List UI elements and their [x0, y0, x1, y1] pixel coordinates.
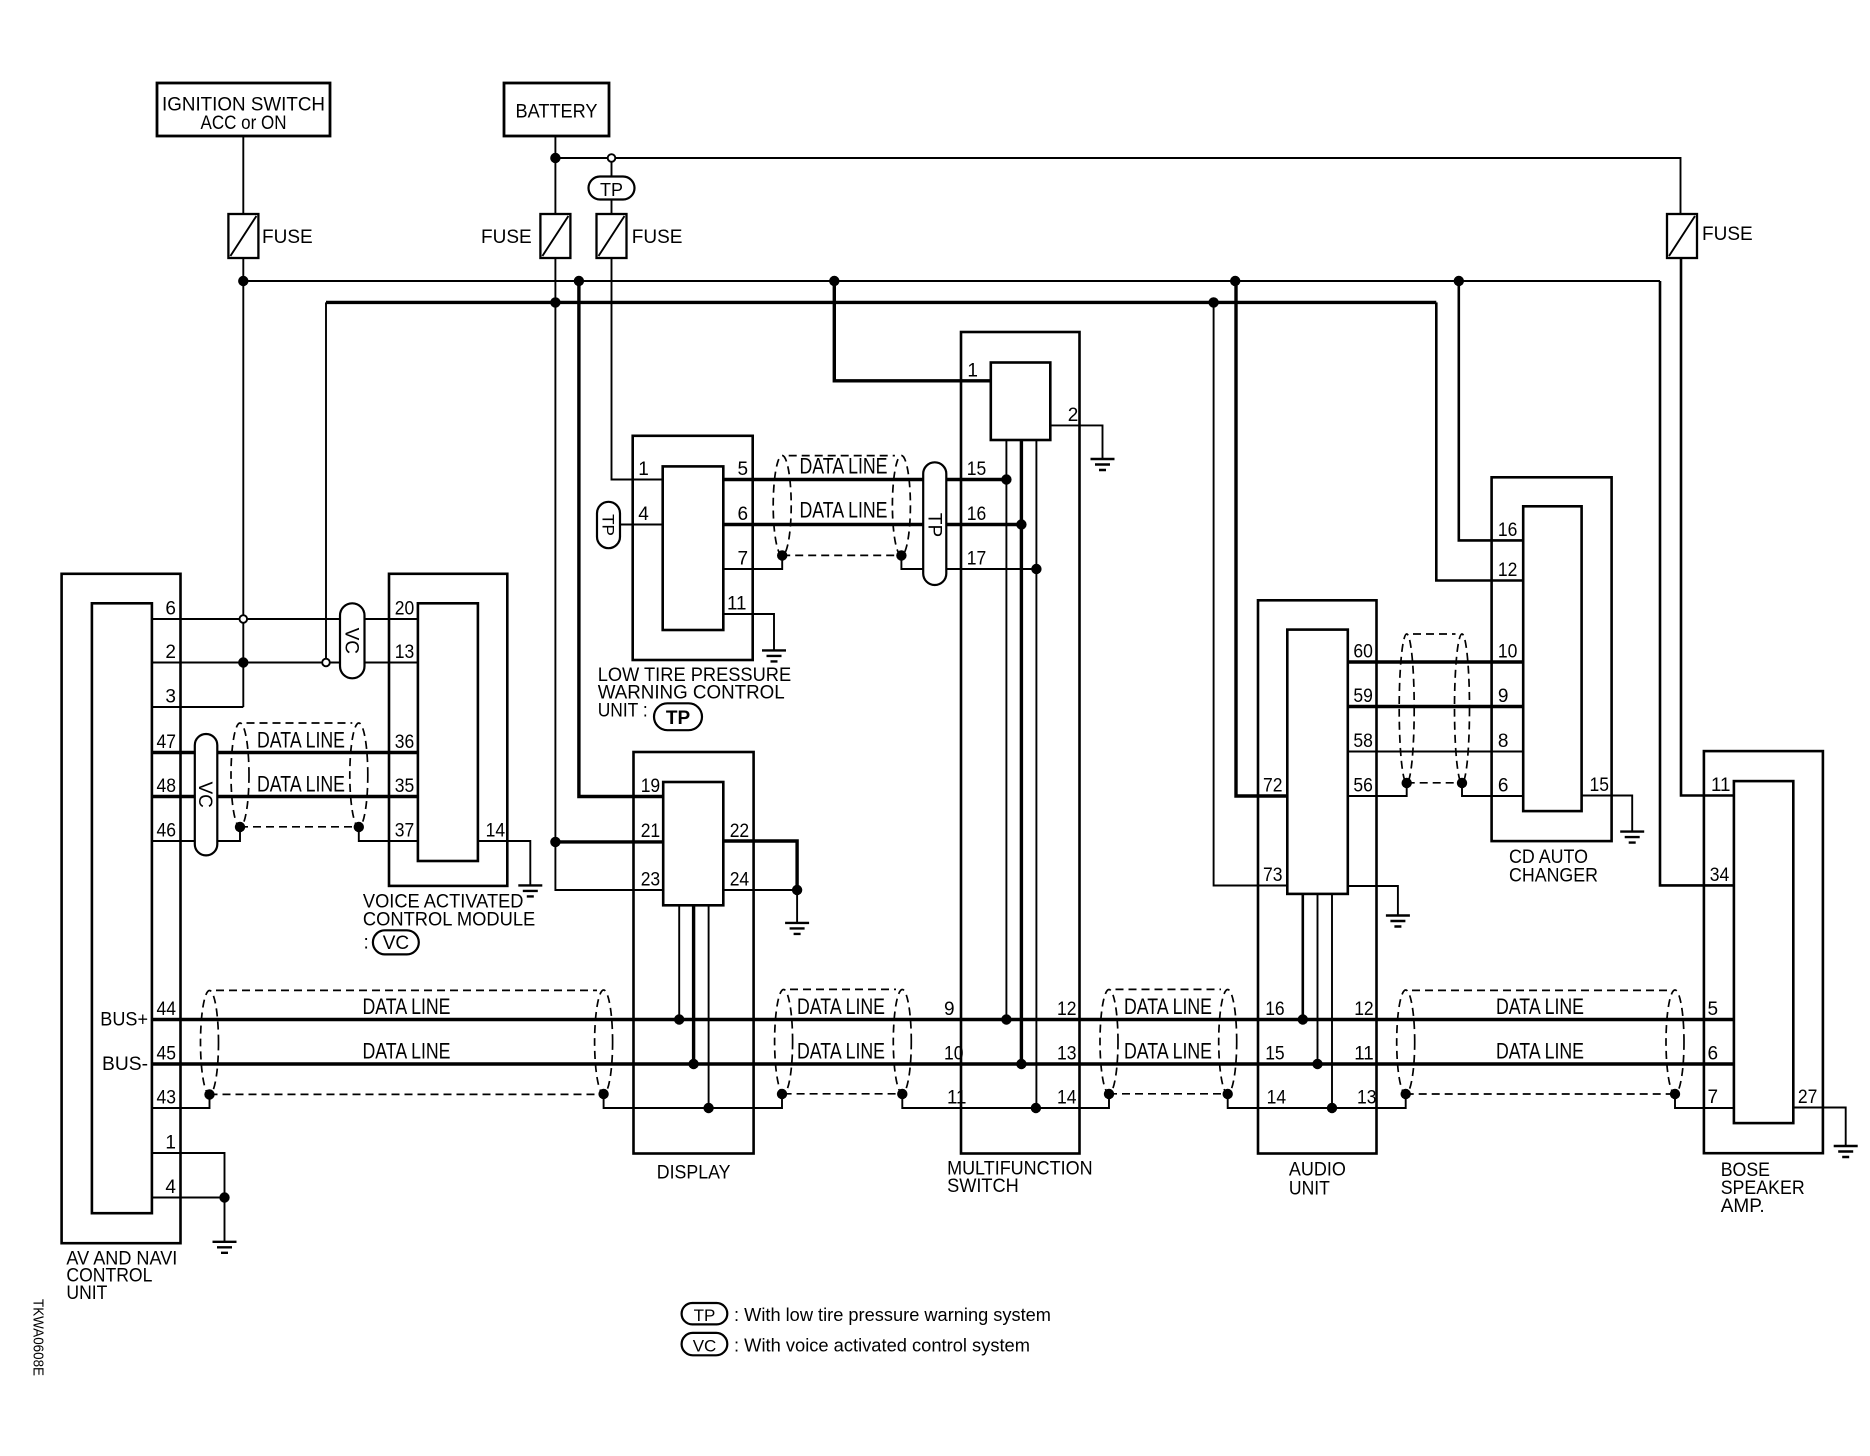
svg-text:60: 60	[1353, 642, 1373, 663]
svg-text:14: 14	[486, 821, 506, 842]
svg-text:UNIT: UNIT	[66, 1283, 107, 1304]
svg-text:ACC or ON: ACC or ON	[201, 113, 287, 134]
svg-text:AMP.: AMP.	[1721, 1196, 1765, 1217]
svg-text:: With low tire pressure warni: : With low tire pressure warning system	[734, 1304, 1051, 1325]
svg-text:15: 15	[1590, 775, 1610, 796]
svg-text:TP: TP	[598, 514, 617, 536]
svg-text:FUSE: FUSE	[262, 227, 313, 248]
svg-text:DATA LINE: DATA LINE	[800, 498, 888, 523]
svg-text:DATA LINE: DATA LINE	[363, 1039, 451, 1064]
svg-text:16: 16	[1265, 999, 1285, 1020]
svg-text:2: 2	[165, 642, 176, 663]
svg-text:VC: VC	[340, 628, 361, 654]
svg-text:11: 11	[727, 594, 747, 615]
svg-text:47: 47	[157, 732, 177, 753]
svg-text:37: 37	[395, 821, 415, 842]
svg-text:23: 23	[641, 870, 661, 891]
svg-text:43: 43	[157, 1088, 177, 1109]
svg-text::: :	[364, 933, 369, 954]
svg-text:TP: TP	[923, 513, 944, 537]
svg-text:16: 16	[967, 504, 987, 525]
svg-text:FUSE: FUSE	[1702, 224, 1753, 245]
svg-text:FUSE: FUSE	[632, 227, 683, 248]
svg-text:DATA LINE: DATA LINE	[257, 772, 345, 797]
svg-text:46: 46	[157, 821, 177, 842]
svg-text:35: 35	[395, 776, 415, 797]
svg-text:58: 58	[1353, 731, 1373, 752]
svg-text:6: 6	[1708, 1044, 1719, 1065]
svg-text:9: 9	[1498, 686, 1509, 707]
svg-text:DISPLAY: DISPLAY	[657, 1163, 731, 1184]
svg-text:22: 22	[730, 821, 750, 842]
svg-text:12: 12	[1057, 999, 1077, 1020]
svg-text:21: 21	[641, 821, 661, 842]
svg-text:72: 72	[1263, 776, 1283, 797]
svg-text:BUS-: BUS-	[102, 1054, 148, 1075]
svg-text:1: 1	[165, 1133, 176, 1154]
svg-text:11: 11	[1711, 775, 1731, 796]
svg-text:16: 16	[1498, 520, 1518, 541]
svg-text:3: 3	[165, 687, 176, 708]
svg-text:DATA LINE: DATA LINE	[1496, 994, 1584, 1019]
svg-text:20: 20	[395, 599, 415, 620]
svg-text:12: 12	[1498, 560, 1518, 581]
svg-text:7: 7	[738, 549, 749, 570]
svg-text:8: 8	[1498, 731, 1509, 752]
svg-text:5: 5	[1708, 999, 1719, 1020]
svg-text:14: 14	[1057, 1088, 1077, 1109]
svg-text:19: 19	[641, 776, 661, 797]
svg-text:AUDIO: AUDIO	[1289, 1160, 1346, 1181]
svg-text:UNIT :: UNIT :	[598, 700, 648, 721]
svg-text:BUS+: BUS+	[100, 1010, 148, 1031]
svg-text:27: 27	[1798, 1087, 1818, 1108]
svg-text:DATA LINE: DATA LINE	[1496, 1039, 1584, 1064]
svg-text:DATA LINE: DATA LINE	[800, 454, 888, 479]
svg-text:56: 56	[1353, 776, 1373, 797]
svg-text:UNIT: UNIT	[1289, 1179, 1330, 1200]
svg-text:11: 11	[1354, 1044, 1374, 1065]
svg-text:10: 10	[944, 1044, 964, 1065]
svg-text:DATA LINE: DATA LINE	[1124, 994, 1212, 1019]
svg-text:DATA LINE: DATA LINE	[797, 1039, 885, 1064]
svg-text:9: 9	[944, 999, 955, 1020]
svg-text:DATA LINE: DATA LINE	[1124, 1039, 1212, 1064]
svg-text:1: 1	[967, 360, 978, 381]
svg-text:13: 13	[1357, 1088, 1377, 1109]
svg-text:CHANGER: CHANGER	[1509, 866, 1598, 887]
svg-text:17: 17	[967, 549, 987, 570]
svg-text:2: 2	[1068, 405, 1079, 426]
svg-text:59: 59	[1353, 686, 1373, 707]
svg-text:44: 44	[157, 999, 177, 1020]
svg-text:: With voice activated control: : With voice activated control system	[734, 1335, 1030, 1356]
svg-text:DATA LINE: DATA LINE	[257, 728, 345, 753]
svg-text:34: 34	[1710, 865, 1730, 886]
svg-text:TP: TP	[666, 708, 691, 729]
svg-text:24: 24	[730, 870, 750, 891]
svg-text:6: 6	[165, 599, 176, 620]
svg-text:36: 36	[395, 732, 415, 753]
svg-text:DATA LINE: DATA LINE	[797, 994, 885, 1019]
svg-text:FUSE: FUSE	[481, 227, 532, 248]
svg-text:13: 13	[395, 642, 415, 663]
svg-text:VC: VC	[693, 1337, 717, 1356]
svg-text:SWITCH: SWITCH	[947, 1176, 1019, 1197]
svg-text:VC: VC	[194, 781, 215, 807]
svg-text:TKWA0608E: TKWA0608E	[30, 1299, 47, 1376]
svg-text:14: 14	[1267, 1088, 1287, 1109]
svg-text:11: 11	[947, 1088, 967, 1109]
svg-text:12: 12	[1354, 999, 1374, 1020]
svg-text:VC: VC	[383, 933, 409, 954]
svg-text:6: 6	[1498, 776, 1509, 797]
svg-text:4: 4	[165, 1177, 176, 1198]
svg-text:TP: TP	[600, 180, 623, 200]
svg-text:5: 5	[738, 459, 749, 480]
svg-text:10: 10	[1498, 642, 1518, 663]
svg-text:15: 15	[1265, 1044, 1285, 1065]
svg-text:45: 45	[157, 1044, 177, 1065]
svg-text:73: 73	[1263, 865, 1283, 886]
svg-text:CONTROL MODULE: CONTROL MODULE	[363, 910, 535, 931]
svg-text:4: 4	[638, 504, 649, 525]
svg-text:TP: TP	[694, 1306, 716, 1325]
svg-text:6: 6	[738, 504, 749, 525]
svg-text:1: 1	[638, 459, 649, 480]
svg-text:48: 48	[157, 776, 177, 797]
svg-text:7: 7	[1708, 1087, 1719, 1108]
svg-text:13: 13	[1057, 1044, 1077, 1065]
svg-text:15: 15	[967, 459, 987, 480]
svg-text:DATA LINE: DATA LINE	[363, 994, 451, 1019]
svg-text:BATTERY: BATTERY	[516, 102, 598, 123]
